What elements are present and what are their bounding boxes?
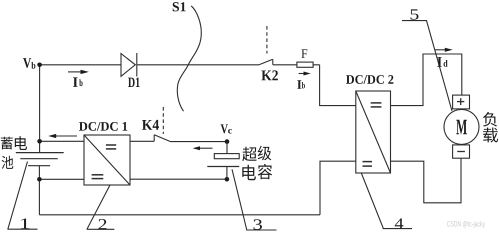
label 2 — [99, 219, 107, 229]
wire battery lower node to DC/DC 1 lower input — [39, 178, 84, 180]
label Vc — [221, 124, 228, 133]
wire top bus from Vb node to diode anode — [40, 64, 121, 66]
wire battery bottom plate down to bottom bus — [38, 166, 40, 215]
motor M1 minus terminal box — [453, 145, 470, 158]
callout 1 leader line — [8, 162, 38, 230]
label 负 of 负载 — [483, 112, 497, 127]
label K4 — [142, 120, 159, 130]
arrow Ib current after fuse — [299, 72, 311, 76]
node battery lower junction dot — [37, 177, 42, 182]
switch K2 actuator dashed line — [266, 26, 268, 54]
label Ib at fuse — [297, 80, 301, 89]
label Vb — [23, 58, 31, 68]
wire down from fuse corner to DC/DC 2 upper input — [320, 65, 356, 106]
wire S1 wavy leader line — [177, 6, 201, 111]
label DC/DC 2 — [346, 75, 393, 84]
label Ib at diode — [73, 77, 78, 86]
label DC/DC 1 — [79, 122, 127, 131]
wire DC/DC 2 upper output up and over to motor plus terminal — [391, 54, 462, 106]
label K2 — [261, 70, 278, 80]
label 3 — [254, 219, 263, 229]
node Vc junction dot — [225, 139, 230, 144]
label 超 of 超级电容 — [242, 147, 257, 161]
label Id — [437, 57, 441, 67]
wire bottom bus — [39, 214, 320, 216]
converter U2 DC bars top — [371, 103, 382, 107]
wire DC/DC 1 lower output to supercap bottom node — [130, 178, 227, 180]
wire diode cathode to K2 left contact — [137, 64, 259, 66]
diode D1 — [121, 53, 137, 77]
switch K2 blade and contact tick — [259, 59, 273, 65]
label 池 of 蓄电池 — [2, 156, 14, 169]
callout 3 leader line — [232, 169, 277, 230]
capacitor C1 超级电容 top plate and lead — [214, 142, 239, 159]
label 电 of 蓄电池 — [15, 136, 27, 150]
label D1 — [128, 78, 140, 87]
callout 2 leader line — [87, 185, 114, 229]
node battery upper junction dot — [37, 139, 42, 144]
motor M1 plus terminal box — [453, 95, 470, 109]
wire K4 blade end to supercap top node — [171, 141, 228, 143]
arrow current into battery — [48, 134, 77, 138]
motor M1 body circle — [444, 109, 479, 144]
label S1 — [173, 2, 186, 11]
callout 5 leader line — [402, 21, 452, 111]
converter U2 DC/DC 2 box with diagonal — [356, 91, 391, 173]
watermark CSDN @tc-jacky — [447, 221, 485, 228]
callout 4 leader line — [361, 173, 412, 229]
capacitor C1 bottom plate and lead — [207, 167, 239, 180]
arrow Id current to motor — [435, 48, 453, 52]
label 1 — [21, 218, 30, 228]
converter U1 DC/DC 1 box with diagonal — [84, 135, 130, 185]
switch K4 contact tick and blade — [154, 135, 170, 142]
wire bottom bus up to DC/DC 2 lower input — [320, 161, 356, 215]
wire battery upper node to DC/DC 1 upper input — [40, 140, 84, 142]
arrow Ib current into diode — [68, 70, 89, 74]
label 载 of 负载 — [483, 128, 498, 143]
label M motor — [456, 120, 467, 134]
wire left bus Vb node down to battery top plate — [39, 65, 41, 153]
arrow current into supercap — [193, 146, 213, 150]
wire motor minus terminal return to DC/DC 2 lower output — [391, 158, 462, 203]
battery B1 蓄电池 plates — [16, 153, 64, 166]
label 级 of 超级电容 — [258, 146, 272, 161]
node supercap bottom junction dot — [225, 177, 230, 182]
wire DC/DC 1 upper output to K4 left contact — [130, 140, 154, 142]
converter U1 DC bars top — [106, 145, 116, 149]
wire K2 right contact through fuse F to corner — [273, 64, 320, 66]
label 蓄 of 蓄电池 — [1, 137, 13, 150]
label 容 of 超级电容 — [258, 164, 273, 179]
node Vb junction dot — [37, 63, 42, 68]
label 电 of 超级电容 — [242, 165, 256, 180]
fuse F body — [297, 62, 313, 67]
converter U1 DC bars bottom — [92, 175, 104, 179]
converter U2 DC bars bottom — [363, 162, 373, 167]
label 5 — [411, 9, 419, 19]
label F — [301, 49, 307, 58]
switch K4 actuator dashed line — [162, 107, 164, 134]
label 4 — [395, 218, 404, 228]
